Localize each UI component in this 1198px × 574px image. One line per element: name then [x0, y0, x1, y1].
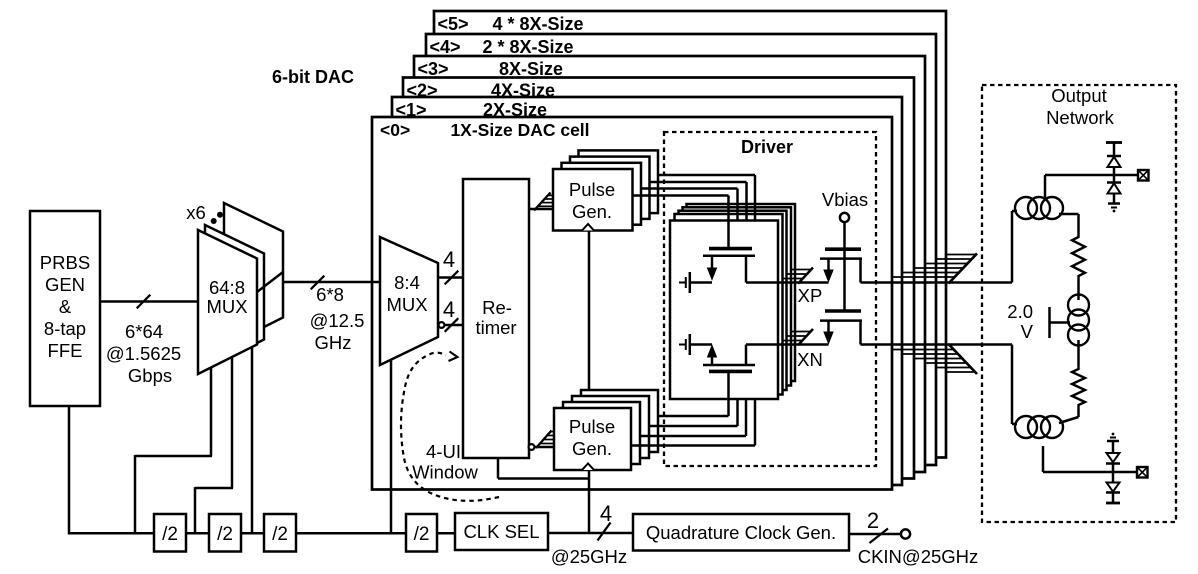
svg-text:Re-: Re-: [482, 297, 512, 318]
svg-text:Window: Window: [412, 462, 478, 483]
svg-text:2 * 8X-Size: 2 * 8X-Size: [482, 37, 573, 57]
svg-text:/2: /2: [272, 524, 288, 545]
svg-text:2.0: 2.0: [1007, 301, 1033, 322]
svg-text:<3>: <3>: [418, 59, 449, 79]
svg-text:Driver: Driver: [741, 137, 793, 157]
svg-text:Vbias: Vbias: [822, 189, 868, 210]
svg-text:Pulse: Pulse: [569, 179, 615, 200]
svg-text:4-UI: 4-UI: [426, 441, 461, 462]
svg-text:CKIN@25GHz: CKIN@25GHz: [858, 546, 979, 567]
svg-text:<1>: <1>: [396, 100, 427, 120]
svg-text:4 * 8X-Size: 4 * 8X-Size: [492, 14, 583, 34]
svg-text:&: &: [59, 296, 72, 317]
svg-text:MUX: MUX: [386, 294, 427, 315]
svg-text:<5>: <5>: [438, 14, 469, 34]
svg-text:4: 4: [443, 247, 455, 272]
svg-text:/2: /2: [414, 524, 430, 545]
svg-text:Pulse: Pulse: [569, 416, 615, 437]
svg-text:GEN: GEN: [45, 274, 85, 295]
svg-text:<2>: <2>: [407, 81, 438, 101]
svg-text:@25GHz: @25GHz: [551, 546, 627, 567]
svg-text:Output: Output: [1051, 85, 1107, 106]
svg-text:6-bit DAC: 6-bit DAC: [272, 67, 354, 87]
svg-text:6*8: 6*8: [316, 284, 344, 305]
svg-text:Gen.: Gen.: [572, 438, 612, 459]
svg-text:GHz: GHz: [315, 332, 352, 353]
svg-text:timer: timer: [475, 317, 516, 338]
svg-text:1X-Size DAC cell: 1X-Size DAC cell: [450, 120, 589, 140]
svg-text:2X-Size: 2X-Size: [483, 100, 547, 120]
svg-text:64:8: 64:8: [209, 277, 245, 298]
svg-text:Gbps: Gbps: [128, 365, 172, 386]
svg-text:PRBS: PRBS: [40, 252, 90, 273]
svg-text:x6: x6: [186, 202, 206, 223]
svg-text:2: 2: [867, 508, 879, 533]
svg-text:4: 4: [443, 297, 455, 322]
svg-text:/2: /2: [217, 524, 233, 545]
svg-text:@12.5: @12.5: [310, 310, 365, 331]
svg-text:/2: /2: [162, 524, 178, 545]
svg-text:<4>: <4>: [430, 37, 461, 57]
svg-text:@1.5625: @1.5625: [106, 343, 181, 364]
svg-text:MUX: MUX: [206, 296, 247, 317]
svg-text:8-tap: 8-tap: [44, 318, 86, 339]
svg-text:8:4: 8:4: [394, 272, 420, 293]
svg-text:Gen.: Gen.: [572, 201, 612, 222]
svg-text:4X-Size: 4X-Size: [491, 81, 555, 101]
svg-text:V: V: [1021, 321, 1034, 342]
svg-text:FFE: FFE: [48, 340, 83, 361]
svg-text:<0>: <0>: [380, 120, 410, 140]
svg-text:Quadrature Clock Gen.: Quadrature Clock Gen.: [646, 522, 836, 543]
svg-text:Network: Network: [1046, 107, 1115, 128]
svg-text:4: 4: [600, 501, 612, 526]
svg-text:XN: XN: [797, 349, 823, 370]
svg-text:XP: XP: [798, 285, 823, 306]
svg-text:8X-Size: 8X-Size: [499, 59, 563, 79]
svg-text:CLK SEL: CLK SEL: [463, 521, 539, 542]
svg-text:6*64: 6*64: [125, 321, 163, 342]
